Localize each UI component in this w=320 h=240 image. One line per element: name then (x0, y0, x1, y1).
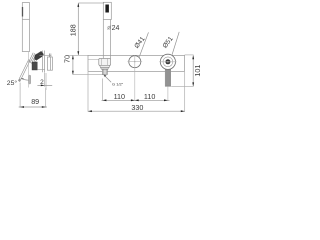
handshower front head (103, 2, 111, 19)
lever arm line 2 (21, 60, 31, 80)
holder dia51 outer circle (160, 54, 175, 69)
bar body (88, 55, 185, 71)
dim 330 arrow left (88, 110, 92, 112)
dim 110 arrow left (103, 99, 107, 101)
dim 110 arrow right (164, 99, 168, 101)
G 1/2 leader (104, 75, 112, 83)
dim 89 extension right (45, 88, 47, 108)
knob center dot (134, 61, 135, 62)
svg-text:70: 70 (62, 55, 71, 63)
dim 70 arrow bottom (72, 71, 74, 75)
dim 89 line (19, 106, 47, 108)
holder ring 1 (100, 65, 110, 67)
body-plate link bottom (37, 68, 44, 70)
dim 70 bottom extension (73, 74, 105, 76)
svg-text:G 1/2": G 1/2" (112, 82, 124, 87)
svg-text:89: 89 (31, 97, 39, 106)
dim 188 arrow bottom (77, 51, 79, 55)
dim 330 left extension (87, 72, 89, 112)
dim 188 arrow top (77, 3, 79, 7)
dim 89 arrow right (42, 106, 46, 108)
mixer body block (32, 62, 37, 70)
dim 89 arrow left (20, 106, 24, 108)
holder nipple shade (102, 70, 104, 75)
holder dia51 center dot (167, 61, 168, 62)
25 degree arc arrow (21, 78, 24, 80)
svg-text:188: 188 (68, 24, 77, 36)
holder hex facets (101, 59, 103, 66)
handshower spray face (thick edge) (22, 7, 24, 17)
svg-text:25°: 25° (7, 79, 18, 87)
dim 110 line (102, 99, 170, 101)
dim 188 line (77, 3, 79, 55)
handshower front handle right edge (109, 20, 111, 59)
dim 89 extension left (19, 83, 21, 108)
handshower front handle left edge (102, 20, 104, 59)
dim 330 arrow right (181, 110, 185, 112)
body-plate link top (40, 55, 52, 57)
handshower front spray window (105, 5, 109, 13)
dim 330 right extension (184, 72, 186, 112)
dim 101 line (192, 55, 194, 86)
dim 70 arrow top (72, 55, 74, 59)
dim 2 extension line b (45, 73, 47, 90)
handshower hanging handle (165, 69, 171, 86)
lever paddle (dark) (35, 51, 44, 60)
knob crosshair horizontal (128, 61, 143, 63)
holder dia51 inner circle (165, 59, 170, 64)
handle hatch lines (166, 70, 169, 86)
knob dia41 circle (129, 56, 141, 68)
svg-text:101: 101 (193, 65, 200, 77)
lever closed position cap (29, 75, 31, 84)
dim 70 line (72, 55, 74, 74)
handshower side-view divider (22, 18, 29, 20)
dim 101 arrow top (192, 55, 194, 59)
svg-text:110: 110 (144, 92, 155, 101)
holder nipple (102, 69, 107, 74)
dia51 leader (172, 32, 179, 55)
wall plate rear line (44, 51, 46, 73)
dia41 leader (139, 32, 148, 56)
knob crosshair vertical / ext to dim (134, 55, 136, 101)
shared extension bar-top level (68, 54, 88, 56)
holder dia51 middle circle (163, 57, 173, 67)
handshower centerline (167, 86, 169, 101)
dim 188 top extension (78, 2, 104, 4)
wall plate front line (41, 51, 43, 73)
dim 2 line (37, 84, 52, 86)
dim 101 arrow bottom (192, 82, 194, 86)
lever arm line 1 (19, 59, 29, 79)
G 1/2 leader arrow (104, 75, 107, 77)
svg-text:24: 24 (112, 25, 120, 32)
dim 2 extension line a (44, 73, 46, 87)
holder ring 2 (101, 67, 109, 69)
svg-text:2: 2 (40, 79, 44, 86)
dia 24 diameter symbol (108, 26, 112, 30)
in-wall body (47, 57, 52, 70)
dim 101 top extension (185, 54, 194, 56)
holder hex nut (99, 58, 111, 65)
handshower side-view body (22, 3, 29, 52)
in-wall body top ticks (49, 54, 51, 57)
dim 2 arrow (41, 85, 45, 87)
svg-text:330: 330 (131, 103, 143, 112)
svg-text:110: 110 (114, 92, 125, 101)
dim 110 arrows middle (131, 99, 135, 101)
lever tip cap (18, 79, 20, 82)
dia51 crosshair horizontal (159, 61, 176, 63)
dim 330 line (88, 110, 185, 112)
mixer cartridge hatch (29, 53, 39, 65)
dim 101 bottom extension (171, 85, 193, 87)
vertical reference line for angle (28, 52, 30, 88)
25 degree arc (21, 78, 29, 80)
in-wall body inner line (50, 57, 52, 70)
dim 110 left extension (102, 79, 104, 101)
bar inner line left (88, 58, 100, 60)
